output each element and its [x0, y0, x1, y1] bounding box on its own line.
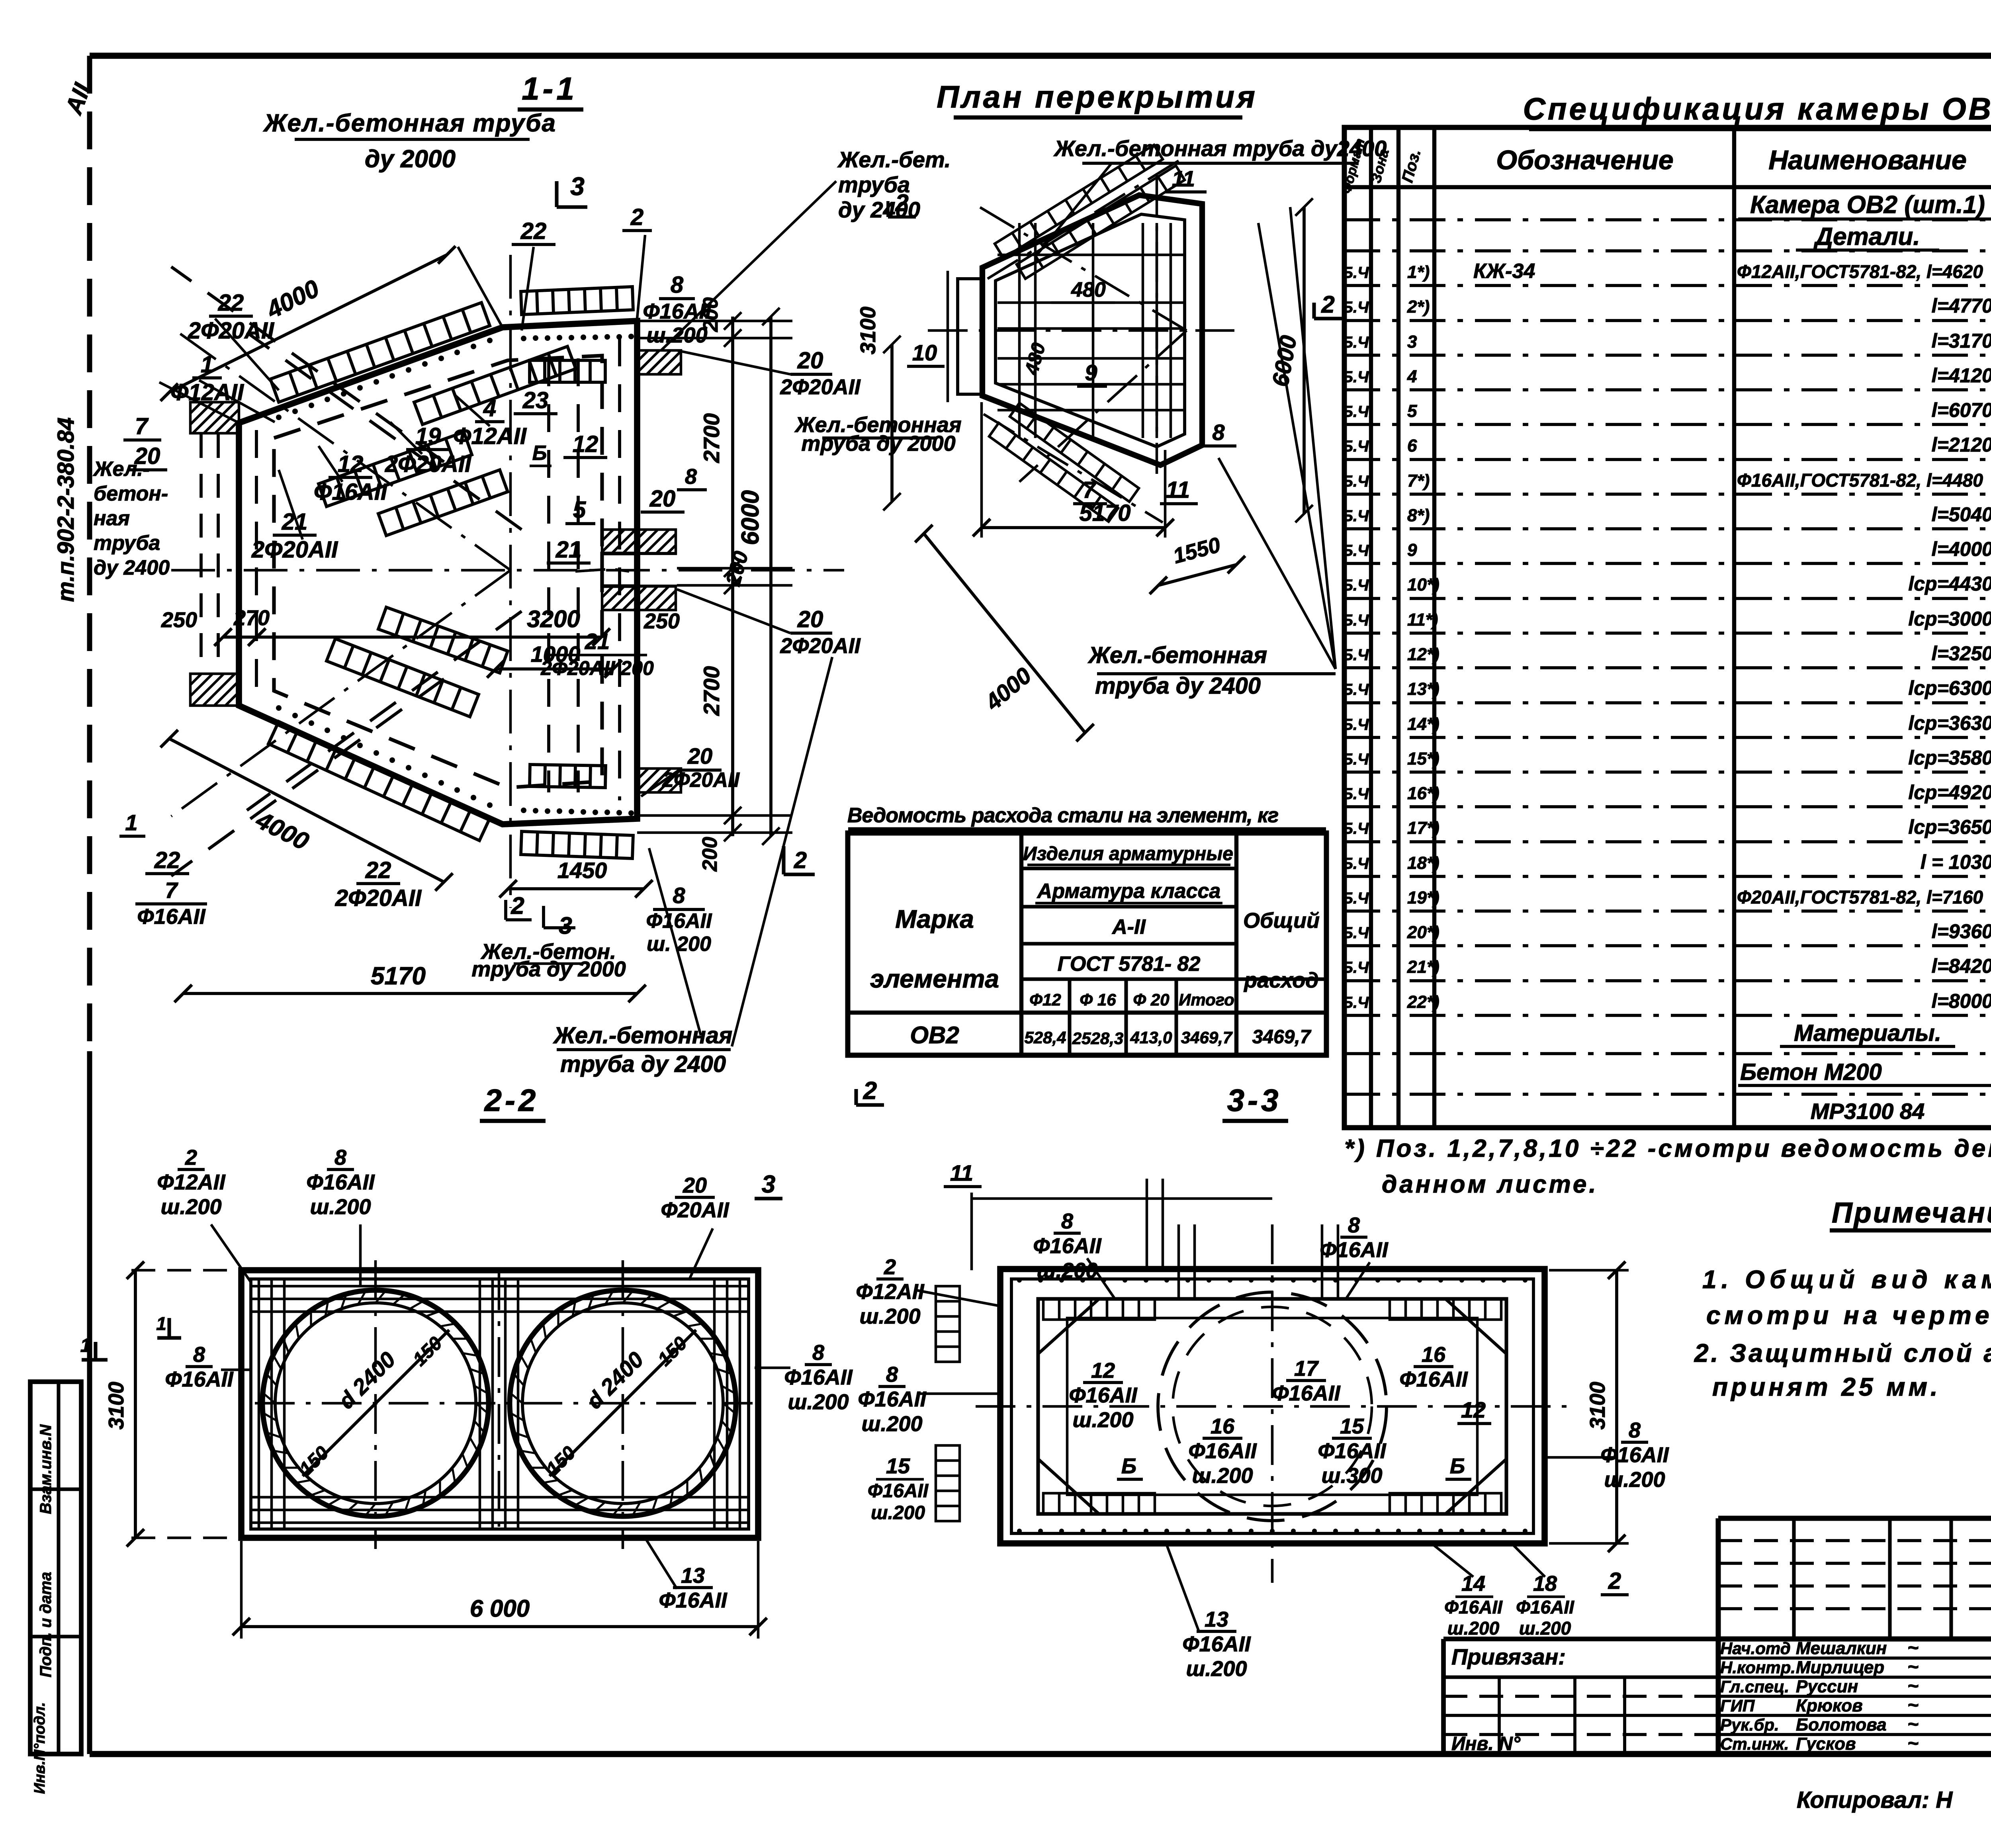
title block outer: [1718, 1516, 1991, 1521]
svg-text:3-3: 3-3: [1227, 1083, 1282, 1118]
svg-text:5: 5: [573, 497, 586, 523]
section 1-1 rebar strip top edge: [521, 287, 633, 315]
svg-text:принят 25 мм.: принят 25 мм.: [1712, 1373, 1941, 1401]
svg-text:3100: 3100: [104, 1382, 128, 1430]
section 2-2 grid lines top edge: [251, 1285, 749, 1288]
section 1-1 chamber inner wall dashed: [274, 356, 602, 788]
svg-text:4000: 4000: [262, 275, 324, 325]
svg-text:смотри на чертеже КЖ-32.: смотри на чертеже КЖ-32.: [1706, 1301, 1991, 1330]
svg-text:12: 12: [1461, 1397, 1486, 1422]
svg-text:l=4000: l=4000: [1932, 538, 1991, 560]
section 3-3 top hanger combs: [1043, 1299, 1155, 1320]
svg-text:250: 250: [643, 609, 680, 633]
svg-text:ш.200: ш.200: [646, 323, 707, 347]
section 3-3 top ticks row: [1017, 1278, 1022, 1283]
svg-text:4000: 4000: [980, 663, 1036, 716]
svg-text:22*): 22*): [1407, 992, 1439, 1012]
svg-text:20*): 20*): [1407, 923, 1439, 942]
section 1-1 leader lines: [215, 319, 279, 390]
svg-text:Поз.: Поз.: [1398, 147, 1424, 184]
svg-text:270: 270: [233, 606, 270, 630]
svg-text:ОВ2: ОВ2: [910, 1022, 959, 1048]
svg-text:ш.200: ш.200: [160, 1195, 221, 1219]
svg-text:7: 7: [165, 878, 178, 903]
svg-text:3: 3: [570, 172, 585, 201]
svg-text:труба ду 2000: труба ду 2000: [471, 957, 626, 981]
svg-text:~: ~: [1907, 1733, 1919, 1754]
section 1-1 rebar dots bottom-left: [276, 705, 282, 711]
svg-text:Ф16АII: Ф16АII: [314, 479, 388, 505]
section 1-1 small comb top edge inner: [530, 360, 605, 382]
svg-text:9: 9: [1085, 360, 1097, 385]
svg-text:Б.Ч.: Б.Ч.: [1342, 577, 1373, 594]
svg-text:21: 21: [585, 629, 610, 654]
svg-text:данном листе.: данном листе.: [1382, 1171, 1598, 1198]
section 1-1 chamber outer wall outline: [239, 321, 637, 824]
svg-text:Ф16АII: Ф16АII: [306, 1170, 375, 1194]
section 2-2 section mark 1 left: [94, 1342, 97, 1360]
section 2-2 grid lines bottom edge: [251, 1496, 749, 1499]
svg-text:3: 3: [762, 1171, 775, 1198]
svg-text:Жел.-бетонная: Жел.-бетонная: [1087, 642, 1267, 668]
svg-text:ш.200: ш.200: [1072, 1408, 1133, 1432]
plan pipe stub bottom angled: [1010, 403, 1139, 502]
svg-text:2Ф20АII: 2Ф20АII: [780, 634, 861, 658]
svg-text:ш. 200: ш. 200: [647, 933, 711, 956]
svg-text:18*): 18*): [1407, 853, 1439, 873]
section 1-1 right mid opening box: [602, 553, 638, 586]
svg-text:22: 22: [520, 218, 547, 244]
plan inner slab grid horizontal: [997, 254, 1185, 256]
svg-text:Руссин: Руссин: [1796, 1677, 1858, 1696]
section 1-1 center line vertical: [509, 255, 512, 908]
section 3-3 center lines: [1271, 1224, 1274, 1583]
svg-text:ш.200: ш.200: [1519, 1618, 1571, 1639]
section 1-1 rebar strip mid diagonal: [414, 346, 576, 424]
svg-text:План перекрытия: План перекрытия: [937, 79, 1258, 114]
svg-text:15: 15: [886, 1454, 910, 1478]
section 2-2 center lines: [255, 1402, 753, 1405]
svg-text:3: 3: [559, 912, 572, 939]
svg-text:11: 11: [1172, 166, 1195, 191]
svg-text:Наименование: Наименование: [1768, 145, 1967, 175]
left mid section mark 1-1 arrows near 2-2: [167, 1318, 171, 1338]
svg-text:~: ~: [1907, 1656, 1919, 1678]
section 3-3 top dim line: [972, 1197, 1272, 1200]
svg-text:7: 7: [1083, 477, 1097, 503]
svg-text:7: 7: [135, 413, 149, 439]
svg-text:15: 15: [1340, 1414, 1364, 1438]
plan chamber outline: [982, 195, 1202, 465]
plan inner wall: [995, 214, 1185, 447]
svg-text:Обозначение: Обозначение: [1496, 145, 1673, 175]
svg-text:150: 150: [542, 1442, 580, 1480]
section 2-2 grid verticals middle: [479, 1279, 481, 1529]
svg-text:2528,3: 2528,3: [1072, 1029, 1123, 1048]
svg-text:1: 1: [201, 352, 213, 377]
svg-text:Детали.: Детали.: [1813, 223, 1920, 250]
section 1-1 dim row 250-270-3200-1000-250: [223, 636, 257, 639]
svg-text:1. Общий вид камеры ОВ2: 1. Общий вид камеры ОВ2: [1702, 1265, 1991, 1294]
section 2-2 grid verticals right: [713, 1279, 716, 1529]
svg-text:2: 2: [863, 1077, 877, 1105]
svg-text:12: 12: [1091, 1359, 1115, 1383]
svg-text:14*): 14*): [1407, 714, 1439, 734]
svg-text:Б.Ч.: Б.Ч.: [1342, 785, 1373, 803]
svg-text:l=4770: l=4770: [1932, 295, 1991, 317]
section 1-1 right mid opening hatch lower: [602, 586, 676, 610]
svg-text:2: 2: [630, 204, 643, 230]
svg-text:2700: 2700: [699, 413, 724, 463]
title block signature rows: [1718, 1656, 1991, 1660]
svg-text:200: 200: [698, 837, 722, 872]
svg-text:3469,7: 3469,7: [1252, 1027, 1312, 1048]
svg-text:4: 4: [483, 395, 496, 421]
svg-text:труба ду 2400: труба ду 2400: [1095, 673, 1261, 699]
plan dim 5170 bottom: [982, 526, 1165, 529]
svg-text:ш.200: ш.200: [871, 1502, 925, 1523]
section 3-3 left outside combs: [936, 1286, 960, 1362]
svg-text:Ф16АII: Ф16АII: [643, 299, 711, 323]
svg-text:2Ф20АII 200: 2Ф20АII 200: [540, 657, 654, 679]
svg-text:23: 23: [522, 387, 549, 413]
svg-text:7*): 7*): [1407, 471, 1430, 491]
svg-text:Ф16АII: Ф16АII: [1318, 1439, 1386, 1463]
svg-text:Ф16АII: Ф16АII: [1516, 1597, 1574, 1617]
svg-text:Б: Б: [532, 442, 547, 465]
svg-text:Ф16АII: Ф16АII: [1182, 1632, 1251, 1656]
svg-text:20: 20: [649, 486, 676, 512]
svg-text:Б.Ч.: Б.Ч.: [1342, 890, 1373, 907]
svg-text:~: ~: [1907, 1714, 1919, 1735]
svg-text:Б.Ч.: Б.Ч.: [1342, 681, 1373, 698]
section 1-1 left pipe walls dashed: [199, 434, 203, 674]
svg-text:Жел.-бетонная труба: Жел.-бетонная труба: [263, 110, 556, 137]
svg-text:8: 8: [1061, 1209, 1073, 1233]
svg-text:МР3100 84: МР3100 84: [1811, 1099, 1925, 1124]
svg-text:расход: расход: [1243, 968, 1318, 992]
svg-text:Примечания:: Примечания:: [1832, 1197, 1991, 1229]
svg-text:1*): 1*): [1407, 262, 1430, 282]
svg-text:*) Поз. 1,2,7,8,10 ÷22 -смотр: *) Поз. 1,2,7,8,10 ÷22 -смотри ведомость…: [1344, 1135, 1991, 1162]
svg-text:Б.Ч.: Б.Ч.: [1342, 751, 1373, 768]
svg-text:ш.200: ш.200: [1192, 1464, 1253, 1488]
svg-text:Б.Ч.: Б.Ч.: [1342, 716, 1373, 733]
svg-text:20: 20: [683, 1173, 707, 1197]
svg-text:~: ~: [1907, 1676, 1919, 1697]
section 3-3 misc leaders: [916, 1290, 1000, 1306]
plan leader diagonal lines to pipe label: [1258, 223, 1336, 669]
svg-text:2: 2: [1321, 291, 1334, 318]
svg-text:2: 2: [1608, 1568, 1621, 1594]
svg-text:Ф 20: Ф 20: [1133, 990, 1169, 1009]
section 2-2 grid verticals left: [258, 1279, 260, 1529]
svg-text:1-1: 1-1: [522, 71, 577, 106]
svg-text:Б.Ч.: Б.Ч.: [1342, 646, 1373, 664]
svg-text:lср=4430: lср=4430: [1908, 573, 1991, 595]
section 1-1 inner second dashed wall line: [618, 338, 621, 800]
svg-text:l=8420: l=8420: [1932, 955, 1991, 977]
svg-text:бетон-: бетон-: [94, 482, 168, 505]
svg-text:2. Защитный слой арматуры: 2. Защитный слой арматуры: [1694, 1339, 1991, 1367]
svg-text:ш.300: ш.300: [1321, 1464, 1382, 1488]
svg-text:Б.Ч.: Б.Ч.: [1342, 368, 1373, 386]
svg-text:22: 22: [365, 857, 391, 883]
section 1-1 rebar dots top-left wall: [276, 415, 282, 420]
section 1-1 small comb bottom inner: [530, 765, 606, 788]
svg-text:480: 480: [1021, 340, 1050, 377]
svg-text:8: 8: [193, 1343, 205, 1367]
svg-text:17*): 17*): [1407, 818, 1439, 838]
svg-text:Б.Ч.: Б.Ч.: [1342, 403, 1373, 420]
svg-text:l=9360: l=9360: [1932, 920, 1991, 943]
svg-text:Ф16АII,ГОСТ5781-82, l=4480: Ф16АII,ГОСТ5781-82, l=4480: [1737, 470, 1983, 491]
svg-text:Б.Ч.: Б.Ч.: [1342, 438, 1373, 455]
section 3-3 second rect: [1011, 1279, 1533, 1533]
svg-text:Б.Ч.: Б.Ч.: [1342, 507, 1373, 525]
svg-text:21*): 21*): [1407, 957, 1439, 977]
svg-text:Подп. и дата: Подп. и дата: [37, 1572, 55, 1678]
section 3-3 inner chamfer corners: [1038, 1299, 1099, 1354]
svg-text:2: 2: [794, 847, 807, 873]
svg-text:413,0: 413,0: [1130, 1028, 1172, 1047]
svg-text:2700: 2700: [699, 666, 724, 716]
svg-text:l=2120: l=2120: [1932, 434, 1991, 456]
svg-text:ш.200: ш.200: [1447, 1618, 1500, 1639]
svg-text:21: 21: [555, 537, 582, 563]
svg-text:13: 13: [681, 1564, 705, 1588]
svg-text:Ф16АII: Ф16АII: [858, 1387, 926, 1411]
svg-text:2Ф20АII: 2Ф20АII: [662, 769, 740, 792]
svg-text:9: 9: [1407, 540, 1417, 560]
svg-text:l=8000: l=8000: [1932, 990, 1991, 1012]
svg-text:11: 11: [1166, 477, 1190, 503]
svg-text:11*): 11*): [1407, 610, 1438, 630]
title block small upper grid: [1718, 1539, 1991, 1542]
section 3-3 vertical bars top: [1177, 1224, 1180, 1299]
svg-text:12*): 12*): [1407, 645, 1439, 664]
section 2-2 circles: [262, 1290, 489, 1516]
svg-text:8: 8: [886, 1363, 898, 1386]
section 1-1 right wall hatched corner top: [637, 350, 681, 374]
svg-text:5: 5: [1407, 401, 1417, 421]
svg-text:480: 480: [1071, 278, 1106, 301]
section 3-3 inner second rect: [1067, 1318, 1477, 1495]
svg-text:10*): 10*): [1407, 575, 1439, 594]
section 1-1 dim 1450: [508, 887, 644, 890]
svg-text:8: 8: [1348, 1213, 1360, 1237]
plan center lines: [928, 329, 1234, 332]
svg-text:lср=6300: lср=6300: [1908, 677, 1991, 699]
svg-text:Нач.отд: Нач.отд: [1720, 1639, 1791, 1658]
svg-text:ГИП: ГИП: [1720, 1696, 1755, 1715]
svg-text:10: 10: [912, 340, 937, 365]
svg-text:20: 20: [797, 606, 823, 632]
svg-text:Итого: Итого: [1179, 990, 1234, 1009]
svg-text:ш.200: ш.200: [788, 1390, 849, 1414]
svg-text:2Ф20АII: 2Ф20АII: [188, 318, 275, 344]
svg-text:l = 1030: l = 1030: [1921, 851, 1991, 873]
svg-text:1450: 1450: [557, 858, 607, 883]
svg-text:труба: труба: [94, 532, 160, 555]
svg-text:16: 16: [1422, 1343, 1446, 1367]
svg-text:Б.Ч.: Б.Ч.: [1342, 959, 1373, 976]
section 3-3 bottom ticks row: [1017, 1529, 1022, 1533]
svg-text:Рук.бр.: Рук.бр.: [1720, 1715, 1779, 1734]
svg-text:труба ду 2400: труба ду 2400: [560, 1051, 726, 1077]
section 1-1 leader top-right label: [661, 181, 836, 350]
svg-text:Н.контр.: Н.контр.: [1720, 1658, 1795, 1677]
svg-text:2: 2: [884, 1255, 896, 1279]
svg-text:ГОСТ 5781- 82: ГОСТ 5781- 82: [1058, 952, 1201, 976]
plan dim 6000 right: [1303, 207, 1306, 514]
svg-text:8: 8: [334, 1146, 346, 1169]
svg-text:ш.200: ш.200: [310, 1195, 371, 1219]
section 1-1 rebar strip extra bottom mid: [378, 607, 508, 673]
svg-text:3200: 3200: [527, 606, 580, 632]
svg-text:1550: 1550: [1171, 533, 1223, 568]
svg-text:2Ф20АII: 2Ф20АII: [335, 885, 422, 911]
svg-text:Ф16АII: Ф16АII: [784, 1365, 853, 1389]
svg-text:l=5040: l=5040: [1932, 503, 1991, 526]
svg-text:8: 8: [812, 1341, 824, 1365]
svg-text:ду 2000: ду 2000: [365, 145, 456, 173]
svg-text:Ф12АII,ГОСТ5781-82, l=4620: Ф12АII,ГОСТ5781-82, l=4620: [1737, 261, 1983, 282]
svg-text:Ф20АII,ГОСТ5781-82, l=7160: Ф20АII,ГОСТ5781-82, l=7160: [1737, 887, 1983, 907]
svg-text:8*): 8*): [1407, 506, 1430, 525]
svg-text:Крюков: Крюков: [1796, 1696, 1863, 1715]
section 1-1 dim 6000 right: [769, 317, 773, 836]
svg-text:19: 19: [415, 423, 441, 449]
svg-text:Жел.-бетонная труба ду2400: Жел.-бетонная труба ду2400: [1053, 136, 1387, 161]
svg-text:Марка: Марка: [895, 905, 974, 933]
svg-text:17: 17: [1294, 1357, 1319, 1381]
svg-text:Мирлицер: Мирлицер: [1796, 1658, 1884, 1677]
svg-text:16: 16: [1211, 1414, 1235, 1438]
svg-text:8: 8: [671, 272, 684, 298]
svg-text:Инв. N°: Инв. N°: [1451, 1733, 1521, 1754]
svg-text:Б: Б: [1121, 1454, 1136, 1478]
svg-text:Болотова: Болотова: [1796, 1715, 1887, 1735]
svg-text:Ф16АII: Ф16АII: [137, 905, 205, 929]
svg-text:12: 12: [338, 451, 364, 477]
svg-text:Б.Ч.: Б.Ч.: [1342, 820, 1373, 837]
section 1-1 rebar strip bottom-left inner: [327, 639, 479, 717]
svg-text:Ф16АII: Ф16АII: [868, 1480, 929, 1502]
svg-text:3100: 3100: [1586, 1382, 1610, 1430]
svg-text:Б.Ч.: Б.Ч.: [1342, 473, 1373, 490]
svg-text:lср=3580: lср=3580: [1908, 747, 1991, 769]
svg-text:2Ф20АII: 2Ф20АII: [780, 375, 861, 399]
section 1-1 rebar strip bottom-left outer: [268, 722, 490, 841]
svg-text:Камера ОВ2 (шт.1): Камера ОВ2 (шт.1): [1750, 191, 1985, 219]
svg-text:5170: 5170: [371, 962, 426, 990]
svg-text:l=3170: l=3170: [1932, 330, 1991, 352]
svg-text:ду 2400: ду 2400: [94, 556, 170, 579]
svg-text:2: 2: [510, 892, 524, 919]
svg-text:Ф12АII: Ф12АII: [157, 1170, 225, 1194]
section 1-1 dim 4000 bottom-left: [169, 739, 444, 882]
svg-text:1: 1: [80, 1335, 91, 1356]
section 1-1 rebar dots top edge: [521, 336, 526, 341]
svg-text:ш.200: ш.200: [861, 1412, 922, 1436]
svg-text:Инв.N°подл.: Инв.N°подл.: [31, 1702, 48, 1794]
section 2-2 outer rect: [241, 1270, 758, 1538]
section 1-1 rebar dots bottom edge: [521, 808, 526, 813]
svg-text:l=4120: l=4120: [1932, 364, 1991, 387]
svg-text:20: 20: [797, 348, 823, 374]
svg-text:Общий: Общий: [1243, 909, 1320, 933]
section 3-3 big circle dashed: [1158, 1292, 1387, 1521]
plan dim 1550 diagonal: [1158, 565, 1236, 585]
svg-text:Изделия арматурные: Изделия арматурные: [1023, 843, 1233, 864]
section 2-2 diagonal d2400 line circle2: [550, 1330, 696, 1476]
svg-text:Ф16АII: Ф16АII: [1399, 1367, 1468, 1391]
svg-text:19*): 19*): [1407, 888, 1439, 907]
svg-text:Взам.инв.N: Взам.инв.N: [37, 1424, 55, 1514]
section 1-1 right dim chain 200 2700 200 2700 200: [731, 317, 734, 836]
plan dim 4000 diagonal: [924, 534, 1085, 733]
svg-text:lср=4920: lср=4920: [1908, 781, 1991, 804]
svg-text:Ф16АII: Ф16АII: [1444, 1597, 1503, 1617]
svg-text:6 000: 6 000: [470, 1595, 530, 1622]
svg-text:Ф16АII: Ф16АII: [1600, 1443, 1669, 1467]
section 1-1 internal partition dashed: [547, 358, 550, 792]
section 1-1 left pipe stub hatched top: [190, 402, 239, 433]
section 2-2 diagonal d2400 line circle1: [303, 1330, 449, 1476]
plan left pipe stub: [958, 279, 982, 394]
svg-text:15*): 15*): [1407, 749, 1439, 769]
svg-text:Б.Ч.: Б.Ч.: [1342, 299, 1373, 316]
svg-text:Б.Ч.: Б.Ч.: [1342, 542, 1373, 559]
svg-text:2: 2: [185, 1146, 197, 1169]
svg-text:4: 4: [1407, 367, 1417, 386]
section 3-3 outer rect: [1000, 1269, 1545, 1543]
svg-text:2*): 2*): [1407, 297, 1430, 317]
svg-text:2: 2: [895, 190, 908, 216]
svg-text:Ведомость расхода стали на эле: Ведомость расхода стали на элемент, кг: [847, 804, 1278, 827]
section 1-1 rebar strip top-left outer: [270, 303, 490, 402]
section 1-1 rebar strip bottom edge: [521, 831, 633, 858]
svg-text:т.п.902-2-380.84: т.п.902-2-380.84: [53, 417, 79, 602]
svg-text:150: 150: [295, 1442, 333, 1480]
svg-text:~: ~: [1907, 1695, 1919, 1716]
svg-text:250: 250: [161, 608, 197, 632]
specification table grid: [1344, 127, 1991, 1128]
svg-text:Гусков: Гусков: [1796, 1734, 1856, 1754]
svg-text:Ф16АII: Ф16АII: [1320, 1238, 1388, 1262]
svg-text:12: 12: [573, 431, 598, 457]
svg-text:11: 11: [950, 1160, 973, 1185]
svg-text:Бетон М200: Бетон М200: [1740, 1059, 1882, 1085]
svg-text:3100: 3100: [856, 307, 880, 354]
svg-text:А-II: А-II: [1111, 915, 1146, 939]
svg-text:13: 13: [1205, 1607, 1228, 1631]
svg-text:Ф12АII: Ф12АII: [170, 379, 244, 405]
svg-text:3: 3: [1407, 332, 1417, 352]
steel consumption table grid: [848, 833, 1326, 1055]
svg-text:Копировал: Н: Копировал: Н: [1797, 1787, 1953, 1813]
svg-text:16*): 16*): [1407, 784, 1439, 803]
svg-text:Привязан:: Привязан:: [1451, 1644, 1566, 1669]
svg-text:Ф16АII: Ф16АII: [1188, 1439, 1257, 1463]
svg-text:Ф12АII: Ф12АII: [453, 423, 527, 449]
svg-text:8: 8: [685, 465, 697, 489]
svg-text:Материалы.: Материалы.: [1794, 1020, 1941, 1046]
svg-text:l=3250: l=3250: [1932, 642, 1991, 665]
section 1-1 left pipe stub hatched bottom: [190, 674, 239, 706]
plan inner slab grid vertical: [1018, 223, 1021, 438]
